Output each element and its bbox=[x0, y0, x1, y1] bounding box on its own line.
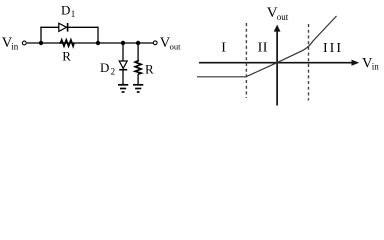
input terminal bbox=[22, 41, 26, 45]
wire R2 top bbox=[137, 43, 139, 60]
node Vin label bbox=[2, 35, 19, 51]
svg-text:out: out bbox=[277, 12, 289, 22]
wire main horizontal bbox=[27, 42, 153, 44]
node Vout label bbox=[160, 35, 181, 51]
label D2 bbox=[100, 60, 115, 76]
svg-text:out: out bbox=[170, 42, 182, 52]
ground 1 bbox=[118, 85, 128, 92]
wire D2 bottom bbox=[122, 70, 124, 85]
label D1 bbox=[61, 3, 75, 19]
graph axis label Vout bbox=[267, 5, 289, 22]
transfer curve bbox=[197, 16, 337, 77]
output terminal bbox=[153, 41, 157, 45]
svg-text:2: 2 bbox=[111, 66, 116, 76]
wire D2 top bbox=[122, 43, 124, 61]
resistor R2 vertical bbox=[135, 60, 141, 74]
diode D2 bbox=[119, 61, 127, 70]
svg-text:D: D bbox=[61, 3, 70, 18]
diode D1 bbox=[59, 23, 68, 32]
svg-text:II: II bbox=[258, 40, 268, 55]
svg-text:III: III bbox=[323, 41, 343, 56]
svg-text:in: in bbox=[372, 62, 380, 72]
node C junction bbox=[121, 41, 125, 45]
wire top left bbox=[40, 26, 58, 28]
graph y-axis Vout bbox=[274, 25, 281, 106]
ground 2 bbox=[133, 85, 143, 92]
region boundary dashed line 2 bbox=[308, 24, 310, 101]
svg-text:in: in bbox=[11, 42, 19, 52]
svg-text:D: D bbox=[100, 60, 109, 75]
svg-text:R: R bbox=[62, 48, 71, 63]
wire R2 bottom bbox=[137, 74, 139, 85]
svg-text:1: 1 bbox=[71, 9, 76, 19]
node B junction bbox=[96, 41, 100, 45]
wire right vertical bbox=[97, 27, 99, 43]
graph x-axis Vin bbox=[199, 60, 359, 66]
graph axis label Vin bbox=[362, 55, 379, 71]
node A junction bbox=[39, 41, 43, 45]
resistor R1 horizontal bbox=[60, 40, 74, 46]
svg-text:R: R bbox=[145, 61, 154, 76]
region boundary dashed line 1 bbox=[245, 23, 247, 98]
wire left vertical bbox=[40, 27, 42, 43]
node D junction bbox=[136, 41, 140, 45]
svg-text:I: I bbox=[221, 40, 226, 55]
wire top right bbox=[68, 26, 99, 28]
